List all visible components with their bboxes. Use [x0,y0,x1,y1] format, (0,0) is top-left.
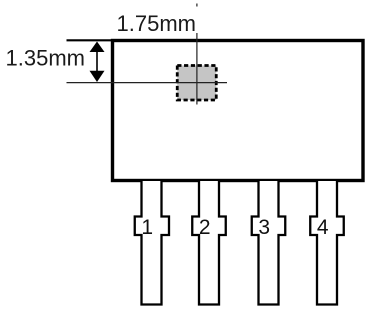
package body [113,41,364,181]
horizontal centerline [67,82,228,84]
dimension arrow shaft [96,46,98,77]
vertical centerline [196,33,198,105]
lead pin 1 [135,181,169,305]
svg-text:1.75mm: 1.75mm [117,11,196,36]
svg-text:3: 3 [258,216,270,239]
top extension line [67,39,112,41]
vertical centerline dash above label [196,4,198,7]
svg-text:1.35mm: 1.35mm [6,45,85,70]
lead pin 2 [192,181,226,305]
svg-text:4: 4 [317,216,329,239]
svg-text:2: 2 [199,216,211,239]
dimension arrowhead down [90,71,105,82]
svg-text:1: 1 [141,216,153,239]
lead pin 3 [252,181,286,305]
lead pin 4 [310,181,344,305]
dimension arrowhead up [90,42,105,53]
sensitive area (gray dashed square) [177,66,216,101]
